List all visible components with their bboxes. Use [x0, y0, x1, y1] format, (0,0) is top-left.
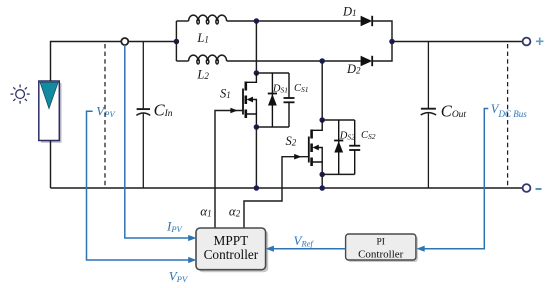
node S2 drain [319, 117, 325, 123]
wire S2 bottom node [322, 173, 355, 175]
terminal plus [523, 38, 531, 46]
terminal minus [523, 184, 531, 192]
wire PV bottom lead [50, 141, 52, 189]
label plus sign [536, 38, 544, 46]
node diode output junction [389, 39, 395, 45]
node S2 source rail junction [319, 185, 325, 191]
wire I_PV sense (blue) [125, 45, 191, 238]
wire L2 right lead [227, 60, 361, 62]
arrow I_PV into MPPT [188, 235, 196, 241]
MPPT controller block [196, 228, 268, 272]
wire D2 cathode to output node [372, 42, 392, 62]
arrow alpha2 into S2 gate [294, 154, 301, 160]
svg-text:CS1: CS1 [294, 83, 309, 94]
svg-text:DS1: DS1 [272, 84, 288, 95]
wire S1 top node [256, 72, 289, 74]
sun icon [11, 85, 30, 104]
diode D2 [361, 56, 373, 66]
diode D_S1 [268, 73, 277, 127]
svg-text:CS2: CS2 [361, 130, 376, 141]
wire L1 left lead [176, 20, 188, 22]
wire S1 bottom node [256, 126, 289, 128]
svg-text:MPPT: MPPT [214, 233, 249, 248]
node S1 source [254, 124, 260, 130]
wire S1 drain drop [255, 21, 257, 73]
arrow V_Ref into MPPT [266, 246, 274, 252]
transistor S2 [309, 120, 322, 174]
wire S2 drain drop [321, 61, 323, 120]
diode D_S2 [334, 120, 343, 174]
inductor L2 [189, 55, 227, 64]
wire split vertical [175, 21, 177, 61]
dashed measurement line (output) [507, 44, 509, 186]
capacitor C_In [136, 42, 150, 189]
dashed measurement line (input) [104, 44, 106, 188]
wire S2 top node [322, 119, 355, 121]
node S1 source rail junction [254, 185, 260, 191]
svg-text:Controller: Controller [204, 247, 259, 262]
arrow alpha1 into S1 gate [230, 108, 237, 114]
node L1 to S1 tap [254, 18, 260, 24]
arrow V_DC into PI [416, 246, 424, 252]
inductor L1 [189, 15, 227, 24]
PI controller block [346, 234, 418, 262]
node L2 to S2 tap [319, 58, 325, 64]
node S1 drain [254, 70, 260, 76]
capacitor C_S1 [284, 73, 295, 127]
wire PV top lead to top rail [51, 42, 177, 82]
label minus sign [536, 188, 542, 190]
wire bottom rail [51, 187, 523, 189]
node current-sense point on top rail [121, 38, 128, 45]
capacitor C_Out [421, 42, 436, 189]
wire output rail [392, 41, 522, 43]
wire S2 source to rail [321, 174, 323, 188]
PV module [39, 81, 62, 143]
capacitor C_S2 [349, 120, 360, 174]
wire L2 left lead [176, 60, 188, 62]
wire V_DC_Bus sense (blue) [421, 109, 488, 249]
wire S1 source to rail [255, 127, 257, 188]
wire alpha1 gate drive [215, 111, 243, 229]
node S2 source [319, 172, 325, 178]
arrow V_PV into MPPT [188, 257, 196, 263]
diode D1 [361, 16, 373, 26]
node input split junction [174, 39, 180, 45]
transistor S1 [243, 73, 256, 127]
svg-text:DS2: DS2 [339, 131, 355, 142]
wire L1 right lead [227, 20, 361, 22]
wire alpha2 gate drive [244, 157, 309, 228]
svg-text:PI: PI [376, 238, 384, 248]
wire D1 cathode to output node [372, 21, 392, 42]
svg-text:Controller: Controller [358, 249, 404, 261]
wire V_Ref (blue) [270, 248, 346, 250]
wire V_PV sense (blue) [87, 111, 192, 260]
